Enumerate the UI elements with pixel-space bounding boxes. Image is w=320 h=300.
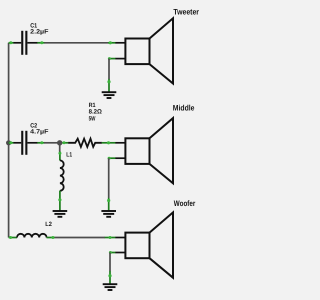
wire middle to ground (108, 158, 110, 198)
ground GND4 (103, 284, 118, 290)
svg-text:L2: L2 (45, 221, 52, 228)
speaker tweeter box (125, 39, 149, 65)
wire C2 to junction (44, 142, 60, 144)
wire C1 to tweeter (44, 42, 109, 44)
wire bus to C2 (dot to pin) (9, 141, 14, 144)
svg-text:5W: 5W (89, 115, 96, 122)
ground GND2 (under L1) (53, 211, 68, 217)
speaker tweeter horn (150, 18, 174, 83)
ground pin (woofer) (109, 271, 111, 284)
node bus/C2 junction (6, 140, 11, 145)
speaker middle horn (150, 118, 174, 183)
wire woofer to ground (109, 253, 111, 272)
svg-text:L1: L1 (66, 152, 72, 159)
svg-text:2.2µF: 2.2µF (30, 28, 49, 35)
speaker woofer horn (150, 212, 174, 277)
inductor L1 (58, 145, 63, 211)
node C2/R1/L1 junction (57, 140, 62, 145)
ground pin (middle) (108, 198, 110, 211)
svg-text:Middle: Middle (173, 104, 195, 113)
wire tweeter to ground (108, 59, 110, 80)
svg-text:Tweeter: Tweeter (173, 7, 199, 16)
middle speaker pins (108, 157, 126, 160)
wire left bus vertical (8, 43, 10, 238)
capacitor C1 (9, 31, 45, 55)
svg-text:Woofer: Woofer (174, 199, 196, 208)
speaker middle box (125, 138, 149, 164)
wire L2 to woofer (55, 237, 105, 239)
ground pin (tweeter) (108, 79, 110, 92)
capacitor C2 (14, 131, 45, 155)
ground GND3 (101, 211, 116, 217)
inductor L2 (9, 234, 55, 239)
wire R1 to middle speaker (102, 141, 126, 144)
woofer pins (105, 236, 126, 254)
speaker woofer box (125, 233, 149, 259)
svg-text:4.7µF: 4.7µF (30, 128, 49, 135)
ground GND1 (102, 92, 117, 98)
resistor R1 (62, 139, 102, 147)
tweeter LS1 pins (108, 41, 126, 60)
